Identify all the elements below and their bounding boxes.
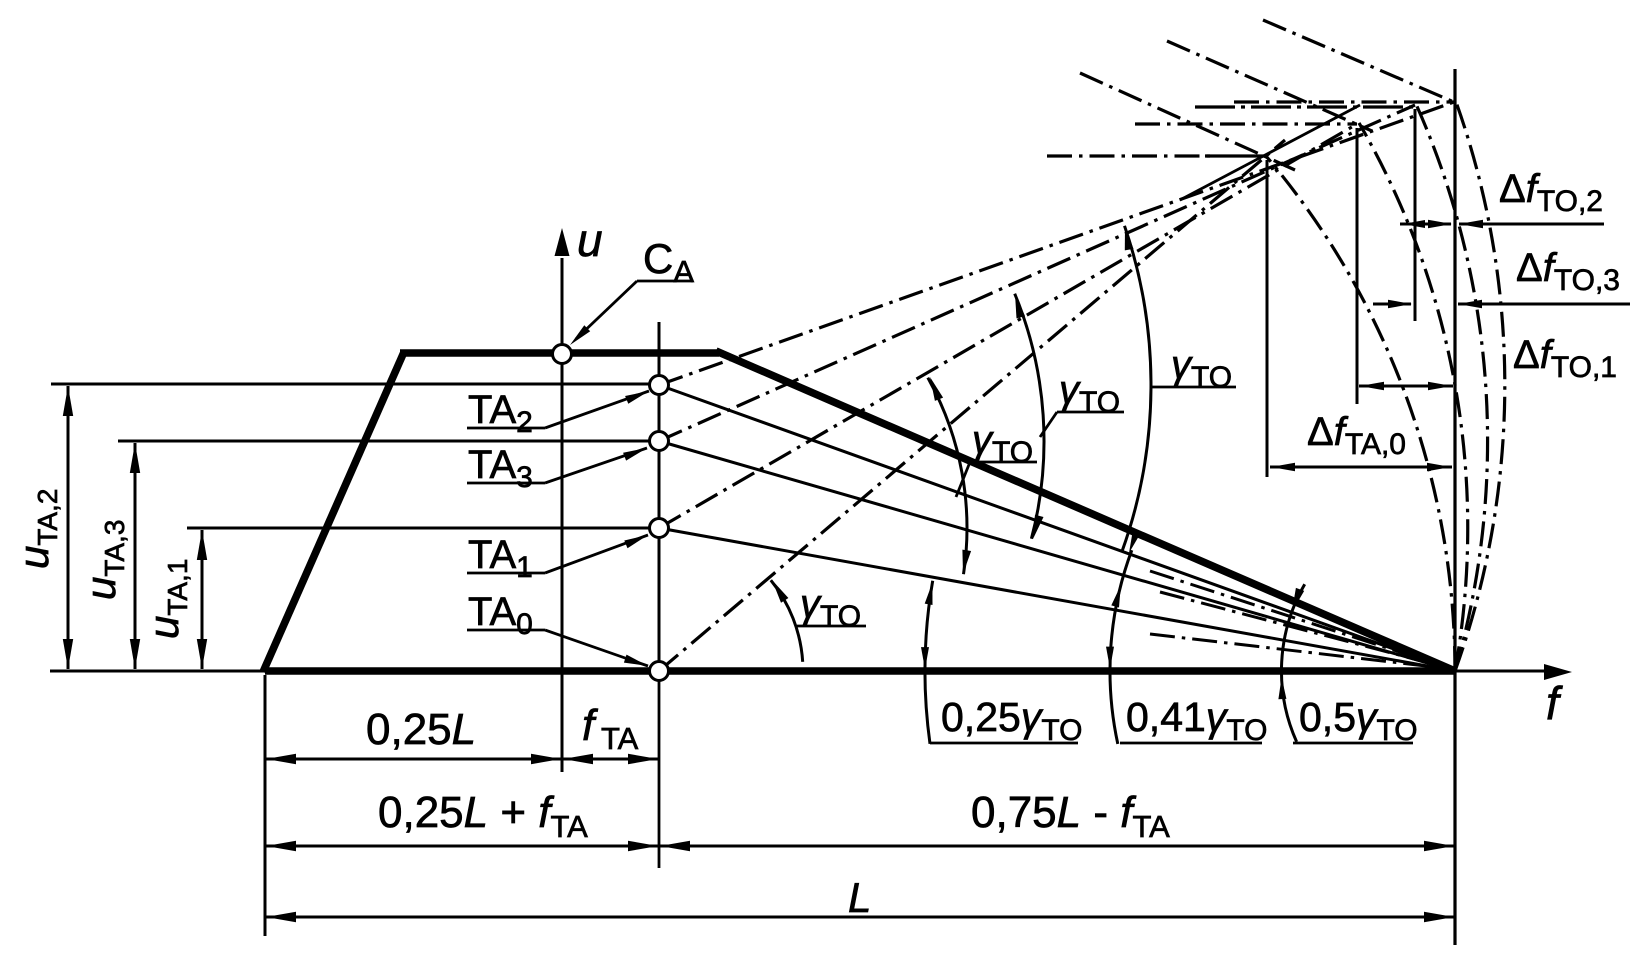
horizontal through E1 [1135, 122, 1357, 125]
f axis baseline (thick) [265, 667, 1455, 675]
TA2 leader [467, 427, 545, 430]
0,41 gamma_TO arc [1110, 550, 1132, 744]
gamma_TO arc G3 (about TA2) [1122, 226, 1151, 551]
fan line TA2 to L-end [659, 385, 1455, 671]
TA1 leader [467, 572, 545, 575]
Delta f TA,0 dimension [1270, 466, 1452, 469]
TA vertical line [658, 322, 661, 671]
Delta f TO,1 dimension [1359, 385, 1453, 388]
Delta f TO,3 dimension [1373, 303, 1411, 306]
point circle TA1 [650, 519, 669, 538]
swing arc about TA3 [1416, 105, 1487, 672]
rotated trace TA1 [659, 124, 1357, 528]
u_TA,2 level line [51, 383, 650, 386]
u_TA,1 level line [187, 527, 650, 530]
row2: 0,75L - f_TA dimension [659, 845, 1455, 848]
f axis thin extension + arrow [1455, 670, 1561, 673]
relief-parallel line to convergence E2 [1263, 20, 1454, 102]
swing arc about TA2 [1455, 101, 1505, 671]
relief-parallel line through E1 [1167, 41, 1372, 131]
gamma_TO arc at TA0 [771, 580, 803, 662]
relief-parallel line through E0 [1080, 73, 1295, 170]
rotated trace TA2 [659, 102, 1454, 385]
u_TA,2 dimension line [67, 386, 70, 669]
TA3 leader [467, 482, 545, 485]
row1: 0,25L dimension [265, 758, 562, 761]
svg-text:TA: TA [601, 721, 639, 756]
u_TA,1 dimension line [201, 530, 204, 669]
rotated trace TA0 [659, 140, 1285, 671]
vertical x=1267 (Delta f TA,0) [1266, 160, 1269, 477]
swing arc about TA0 [1266, 156, 1455, 671]
horizontal through E0 [1047, 154, 1210, 157]
point circle TA3 [650, 432, 669, 451]
trapezoid top edge [400, 349, 719, 357]
dash-dot doubling of fan lines near vertex [1150, 571, 1452, 669]
row2: 0,25L + f_TA dimension [265, 845, 659, 848]
right vertical x=1455 [1453, 69, 1456, 945]
extension line x=265 [264, 675, 267, 936]
horizontal through E2 [1234, 100, 1454, 103]
point circle TA2 [650, 376, 669, 395]
vertical x=1415 (Delta f TO,3) [1414, 109, 1417, 321]
svg-text:0,25L: 0,25L [366, 705, 476, 754]
u_TA,3 dimension line [134, 443, 137, 669]
relief slope (thick right slant) [716, 351, 1455, 671]
TA0 leader [467, 629, 545, 632]
C_A leader [637, 280, 693, 283]
fan line TA1 to L-end [659, 528, 1455, 671]
swing arc about TA1 [1359, 123, 1468, 671]
Delta f TO,2 dimension [1400, 223, 1451, 226]
u_TA,3 level line [118, 440, 650, 443]
fan line TA3 to L-end [659, 441, 1455, 671]
TA vertical below baseline [658, 671, 661, 868]
0,25 gamma_TO arc [925, 581, 933, 744]
row1: f_TA dimension [562, 758, 659, 761]
rotated trace TA3 [659, 105, 1415, 441]
u axis [561, 258, 564, 671]
horizontal through E3 [1195, 105, 1415, 108]
trapezoid left slant [263, 352, 404, 672]
svg-text:L: L [848, 874, 871, 921]
vertical x=1357 (Delta f TO,1) [1356, 128, 1359, 404]
gamma_TO arc G2 (about TA3) [1015, 294, 1044, 539]
point circle C_A [553, 345, 572, 364]
baseline left thin extension [50, 670, 265, 673]
gamma_TO arc G1 (about TA1) [928, 378, 967, 575]
svg-text:u: u [577, 214, 603, 266]
0,5 gamma_TO arc [1281, 584, 1304, 742]
extension line x=562 below [561, 671, 564, 772]
row3: L dimension [265, 916, 1455, 919]
point circle TA0 [650, 662, 669, 681]
thin solid line over rotated endpoints [1180, 105, 1360, 200]
